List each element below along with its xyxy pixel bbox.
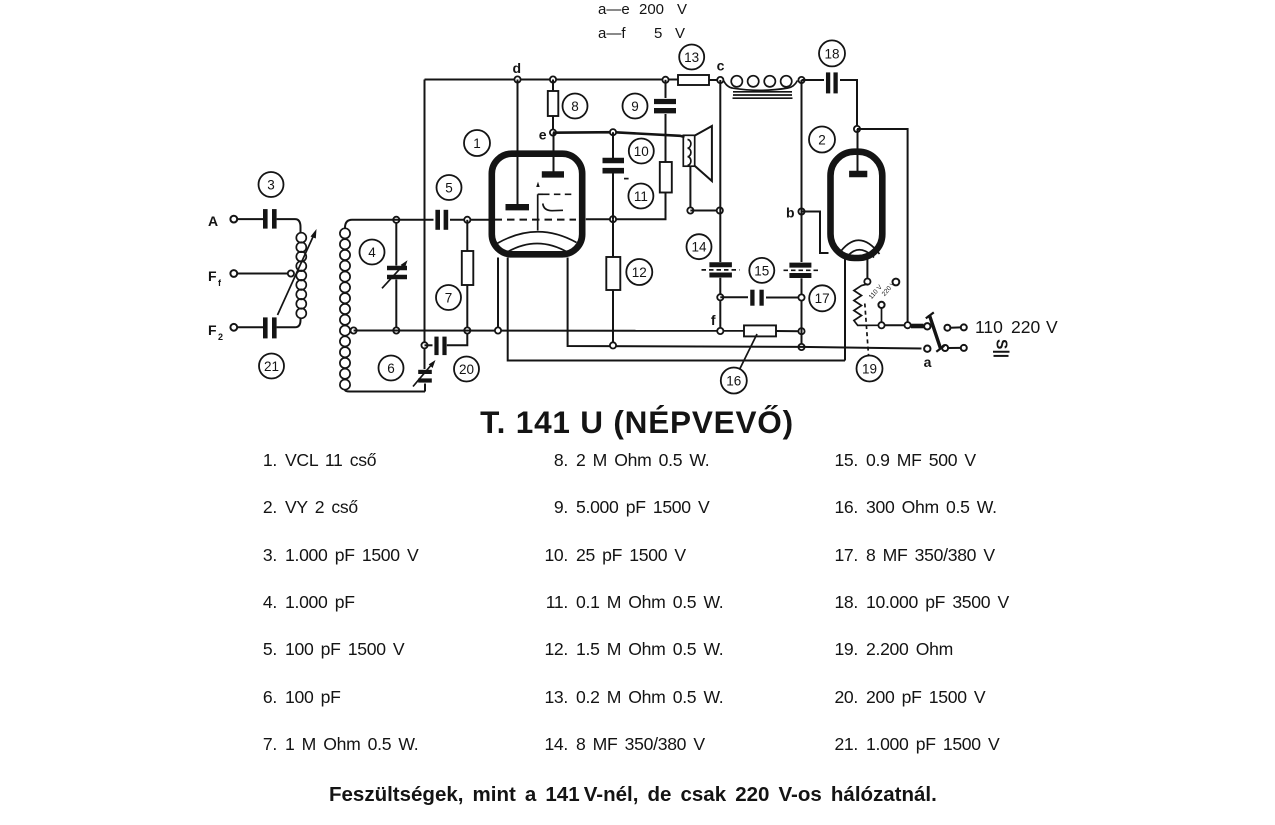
tube V2 base dome inner — [847, 250, 875, 258]
svg-text:VY 2 cső: VY 2 cső — [285, 497, 358, 517]
wire C10 to grid node — [612, 174, 614, 220]
svg-text:5.: 5. — [263, 639, 277, 659]
wire R19 bottom to switch — [878, 324, 905, 326]
terminal Ff — [208, 268, 237, 288]
node choke right — [798, 77, 804, 83]
node c — [717, 58, 725, 84]
capacitor C20 — [437, 337, 445, 356]
wire C4 top stem — [395, 220, 397, 266]
svg-text:0.2 M Ohm 0.5 W.: 0.2 M Ohm 0.5 W. — [576, 687, 723, 707]
tube V2 base dome outer — [838, 240, 880, 255]
anode stem from d into tube 1 — [517, 80, 519, 205]
svg-text:19: 19 — [862, 361, 877, 376]
svg-text:12: 12 — [632, 265, 647, 280]
node R12 bottom — [610, 342, 616, 348]
node R8 top — [550, 76, 556, 82]
C10 minus mark — [624, 178, 629, 180]
node heater line right — [798, 344, 804, 350]
circle label 7 — [436, 285, 461, 310]
svg-text:9: 9 — [631, 99, 639, 114]
svg-text:2.200 Ohm: 2.200 Ohm — [866, 639, 953, 659]
ferrite tuning arrow through antenna coil — [278, 229, 317, 315]
node 3 circle label — [259, 172, 284, 197]
resistor R7 — [462, 251, 474, 285]
node C4 bottom — [393, 327, 399, 333]
wire b to tube 2 — [802, 212, 829, 254]
capacitor C21 — [265, 317, 274, 338]
tube V1 pentode anode — [542, 171, 564, 177]
speaker return wire — [689, 166, 691, 210]
svg-text:1.000 pF 1500 V: 1.000 pF 1500 V — [866, 734, 1000, 754]
svg-text:T. 141 U (NÉPVEVŐ): T. 141 U (NÉPVEVŐ) — [480, 404, 794, 440]
svg-text:18: 18 — [824, 46, 839, 61]
circle label 13 — [679, 45, 704, 70]
switch lever — [926, 312, 945, 351]
switch top pole circles — [924, 323, 967, 331]
svg-text:f: f — [711, 312, 716, 328]
tube V1 beam arrow — [536, 182, 540, 187]
svg-text:110: 110 — [975, 317, 1003, 337]
wire e-branch to C10 — [612, 132, 614, 158]
svg-text:16.: 16. — [834, 497, 858, 517]
svg-text:1.5 M Ohm 0.5 W.: 1.5 M Ohm 0.5 W. — [576, 639, 723, 659]
wire C21 to antenna coil bottom — [277, 318, 301, 327]
svg-text:a: a — [924, 354, 932, 370]
svg-text:0.9 MF 500 V: 0.9 MF 500 V — [866, 450, 976, 470]
tuning coil L4 — [340, 220, 352, 392]
wire R7 top — [466, 220, 468, 251]
wire C15 to 17-line — [766, 297, 802, 299]
switch bottom pole circles — [924, 345, 967, 352]
node e-wire branch — [610, 129, 616, 135]
circle label 16 — [721, 368, 747, 394]
capacitor C15 — [752, 290, 761, 306]
svg-text:18.: 18. — [834, 592, 858, 612]
circle label 12 — [626, 259, 652, 285]
wire anode junction right and down to switch — [857, 129, 908, 322]
tube V2 VY2 envelope — [831, 152, 883, 258]
tube V1 pentode grid dashed — [538, 193, 543, 195]
svg-text:14: 14 — [691, 240, 707, 255]
svg-text:8.: 8. — [554, 450, 568, 470]
wire C20 left link — [425, 344, 433, 346]
svg-text:2 M Ohm 0.5 W.: 2 M Ohm 0.5 W. — [576, 450, 709, 470]
tube V1 control grid dashed — [495, 219, 577, 221]
grid return wire from tube 1 right — [586, 193, 666, 220]
svg-text:1 M Ohm 0.5 W.: 1 M Ohm 0.5 W. — [285, 734, 418, 754]
circle label 1 — [464, 130, 490, 156]
tube V2 cathode pin — [866, 258, 868, 279]
wire node to C18 — [802, 79, 825, 81]
svg-text:3: 3 — [267, 177, 275, 192]
wire R16 to node — [776, 330, 802, 332]
tube V1 VCL11 envelope — [492, 154, 582, 255]
wire R13 to node c — [709, 79, 717, 81]
svg-text:12.: 12. — [544, 639, 568, 659]
wire rail to R8 — [552, 80, 554, 92]
tube V1 pin cathode return — [568, 258, 922, 349]
circle label 2 — [809, 127, 835, 153]
variable capacitor C4 — [382, 260, 408, 288]
mains label 110 220 V — [975, 317, 1058, 337]
leader line 16 — [740, 334, 758, 370]
svg-text:F: F — [208, 322, 217, 338]
capacitor C10 — [603, 161, 625, 171]
resistor R16 — [744, 325, 776, 336]
svg-text:14.: 14. — [544, 734, 568, 754]
tube V1 triode anode — [506, 204, 530, 210]
svg-text:13.: 13. — [544, 687, 568, 707]
tube V1 pin left to rail — [497, 258, 499, 331]
antenna coil L-ant — [296, 233, 306, 319]
circle label 20 — [454, 357, 479, 382]
mains transformer choke — [724, 76, 798, 91]
trimmer capacitor C6 — [413, 360, 436, 387]
capacitor C14 electrolytic — [702, 265, 740, 275]
svg-text:10.000 pF 3500 V: 10.000 pF 3500 V — [866, 592, 1009, 612]
node below C14 — [717, 294, 723, 300]
circle label 8 — [563, 94, 588, 119]
node speaker return — [687, 207, 693, 213]
svg-text:25 pF 1500 V: 25 pF 1500 V — [576, 545, 686, 565]
tube V1 screen lead — [537, 194, 539, 230]
chassis rail wire — [354, 330, 744, 332]
node above C9 on rail — [662, 77, 668, 83]
svg-text:V: V — [1046, 317, 1058, 337]
svg-text:220: 220 — [1011, 317, 1040, 337]
wire R7 bottom — [466, 285, 468, 331]
wire rail to C9 — [665, 80, 667, 98]
node b — [786, 205, 805, 221]
svg-text:200: 200 — [639, 1, 664, 18]
circle label 9 — [623, 94, 648, 119]
node rail right end — [798, 328, 804, 334]
svg-text:8 MF 350/380 V: 8 MF 350/380 V — [866, 545, 995, 565]
svg-text:300 Ohm 0.5 W.: 300 Ohm 0.5 W. — [866, 497, 997, 517]
node R7 bottom on rail — [464, 327, 470, 333]
svg-text:2: 2 — [818, 132, 826, 147]
svg-text:5: 5 — [654, 25, 662, 42]
resistor R13 — [678, 75, 709, 85]
svg-text:8: 8 — [571, 99, 579, 114]
svg-text:20.: 20. — [834, 687, 858, 707]
node on c line — [717, 207, 723, 213]
voltage note a-f 5 V — [598, 25, 685, 42]
svg-text:7.: 7. — [263, 734, 277, 754]
anode stem tube 2 — [857, 129, 859, 171]
svg-text:V: V — [675, 25, 685, 42]
svg-text:9.: 9. — [554, 497, 568, 517]
svg-text:8 MF 350/380 V: 8 MF 350/380 V — [576, 734, 705, 754]
svg-text:S: S — [993, 339, 1010, 349]
top HT rail wire — [425, 79, 679, 81]
circle label 17 — [809, 285, 835, 311]
resistor R11 — [660, 162, 672, 193]
tap stem — [881, 308, 883, 325]
wire C4 bottom stem — [395, 280, 397, 331]
speaker voice coil — [683, 135, 694, 166]
wire C3 to antenna coil — [277, 219, 301, 233]
svg-text:20: 20 — [459, 362, 474, 377]
svg-text:21: 21 — [264, 359, 279, 374]
svg-text:5.000 pF 1500 V: 5.000 pF 1500 V — [576, 497, 710, 517]
node pin on rail — [495, 327, 501, 333]
circle label 21 — [259, 354, 284, 379]
svg-text:2.: 2. — [263, 497, 277, 517]
wire C20 to rail — [447, 334, 468, 346]
svg-text:15.: 15. — [834, 450, 858, 470]
svg-text:3.: 3. — [263, 545, 277, 565]
circle label 5 — [437, 175, 462, 200]
svg-text:1: 1 — [473, 136, 481, 151]
wire Ff to coil tap — [237, 273, 288, 275]
heater wire up to tube V2 — [844, 258, 846, 361]
svg-text:2: 2 — [218, 332, 223, 342]
svg-text:16: 16 — [726, 373, 741, 388]
svg-text:11.: 11. — [546, 592, 568, 612]
node C20 tap — [421, 342, 427, 348]
wire C14 to node f — [719, 278, 721, 331]
svg-text:6: 6 — [387, 361, 395, 376]
svg-text:10.: 10. — [544, 545, 568, 565]
svg-text:15: 15 — [754, 263, 769, 278]
left feedback vertical wire — [424, 80, 426, 370]
svg-text:4: 4 — [368, 245, 376, 260]
svg-text:A: A — [208, 213, 218, 229]
wire coil bottom rail — [350, 391, 425, 393]
node coil tap to chassis rail — [351, 327, 357, 333]
circle label 6 — [379, 356, 404, 381]
c vertical wire to C14 — [719, 80, 721, 262]
circle label 15 — [749, 258, 774, 283]
svg-text:19.: 19. — [834, 639, 858, 659]
circle label 10 — [629, 139, 654, 164]
tube V1 cathode hook — [543, 204, 563, 211]
node grid right of C5 — [464, 217, 470, 223]
resistor R8 — [548, 91, 559, 116]
svg-text:F: F — [208, 268, 217, 284]
resistor R19 zigzag — [854, 284, 878, 325]
svg-text:V: V — [677, 1, 687, 18]
tube V2 anode — [849, 171, 867, 177]
tap terminal circle 110 — [878, 302, 884, 308]
node f — [711, 312, 724, 334]
svg-text:1.: 1. — [263, 450, 277, 470]
svg-text:4.: 4. — [263, 592, 277, 612]
voltage note a-e 200 V — [598, 1, 687, 18]
svg-text:1.000 pF: 1.000 pF — [285, 592, 355, 612]
svg-text:17.: 17. — [834, 545, 858, 565]
svg-text:7: 7 — [445, 290, 453, 305]
svg-text:a—f: a—f — [598, 25, 626, 42]
grid wire C5 to tube — [450, 219, 491, 221]
wire R8 to node e — [552, 116, 554, 133]
svg-text:e: e — [539, 127, 547, 143]
node e — [539, 127, 556, 143]
grid wire to C5 — [352, 219, 434, 221]
wire C6 bottom to bottom wire — [424, 384, 426, 392]
capacitor C9 — [654, 102, 676, 111]
wire C17 down to lower line — [801, 278, 803, 347]
wire F2 to C21 — [237, 326, 263, 328]
terminal A — [208, 213, 237, 229]
node switch top — [905, 322, 911, 328]
node C15 right — [798, 294, 804, 300]
capacitor C3 — [265, 209, 274, 229]
tube V1 base dome outer — [497, 232, 577, 244]
capacitor C17 electrolytic — [784, 265, 819, 275]
circle label 18 — [819, 40, 845, 66]
svg-text:a—e: a—e — [598, 1, 630, 18]
svg-text:100 pF: 100 pF — [285, 687, 341, 707]
svg-text:100 pF 1500 V: 100 pF 1500 V — [285, 639, 405, 659]
wire C9 to R11 — [665, 114, 667, 162]
circle label 11 — [628, 184, 653, 209]
svg-text:d: d — [512, 60, 521, 76]
svg-text:VCL 11 cső: VCL 11 cső — [285, 450, 377, 470]
svg-text:c: c — [717, 58, 725, 74]
node grid return — [610, 216, 616, 222]
switch designation S rotated — [993, 339, 1010, 356]
node tap bottom — [878, 322, 884, 328]
vertical b line (c node to C17) — [801, 80, 803, 262]
node d — [512, 60, 521, 83]
choke core lines — [733, 92, 793, 98]
terminal F2 — [208, 322, 237, 342]
svg-text:0.1 M Ohm 0.5 W.: 0.1 M Ohm 0.5 W. — [576, 592, 723, 612]
wire R12 to heater return line — [612, 290, 614, 345]
svg-text:Feszültségek, mint a 141 V-nél: Feszültségek, mint a 141 V-nél, de csak … — [329, 783, 937, 806]
wire to C15 — [720, 296, 748, 298]
capacitor C5 — [438, 210, 446, 230]
wire grid node to R12 — [612, 219, 614, 257]
switch top blob — [911, 324, 924, 329]
wire e to speaker — [553, 132, 685, 137]
svg-text:21.: 21. — [834, 734, 858, 754]
svg-text:5: 5 — [445, 180, 453, 195]
leader line 19 dashed — [865, 304, 869, 356]
node coil tap — [288, 270, 294, 276]
wire A to C3 — [237, 218, 263, 220]
svg-text:13: 13 — [684, 50, 699, 65]
node anode junction — [854, 126, 860, 132]
node grid line left — [393, 217, 399, 223]
wire speaker return to c line — [690, 210, 719, 212]
speaker cone — [695, 126, 712, 181]
tube V1 base dome inner — [507, 244, 569, 253]
svg-text:b: b — [786, 205, 795, 221]
circle label 14 — [687, 234, 712, 259]
circle label 4 — [360, 240, 385, 265]
svg-text:200 pF 1500 V: 200 pF 1500 V — [866, 687, 986, 707]
screen stem into tube 1 — [553, 133, 555, 172]
resistor R12 — [606, 257, 620, 290]
svg-text:10: 10 — [634, 144, 649, 159]
capacitor C18 — [828, 72, 836, 93]
terminal circle 220 — [893, 279, 900, 286]
circle label 19 — [857, 356, 883, 382]
svg-text:11: 11 — [634, 189, 648, 204]
wire C18 to anode corner — [840, 80, 857, 129]
tube V1 pin heater — [508, 258, 845, 361]
node R19 top — [864, 279, 870, 285]
svg-text:1.000 pF 1500 V: 1.000 pF 1500 V — [285, 545, 419, 565]
svg-text:6.: 6. — [263, 687, 277, 707]
svg-text:17: 17 — [815, 291, 830, 306]
